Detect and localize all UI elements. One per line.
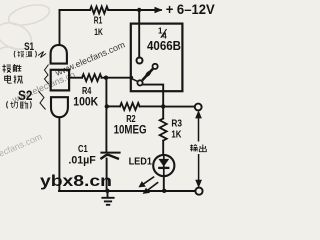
touch pad S2 dome bbox=[51, 97, 68, 117]
svg-text:R1: R1 bbox=[94, 15, 103, 26]
output arrow upper bbox=[196, 112, 201, 142]
svg-text:R4: R4 bbox=[82, 86, 92, 97]
label shu chu (output) bbox=[190, 144, 206, 152]
pointer S1 to pad bbox=[38, 52, 46, 58]
wire top rail right segment bbox=[108, 9, 154, 11]
wire 4066 input column bbox=[138, 10, 140, 57]
switch output pin stub bbox=[132, 79, 138, 82]
IC box 4066 bbox=[131, 24, 183, 92]
svg-text:1K: 1K bbox=[171, 130, 181, 141]
output terminal top bbox=[195, 104, 202, 111]
LED1 emission arrow 1 bbox=[139, 177, 154, 187]
resistor R4 bbox=[82, 74, 102, 81]
watermark swirl logo top-left bbox=[0, 1, 52, 54]
svg-text:100K: 100K bbox=[73, 97, 99, 109]
svg-text:S2: S2 bbox=[18, 87, 33, 103]
touch pad S1 dome bbox=[51, 45, 67, 64]
junction R4 / box edge bbox=[130, 76, 134, 80]
label (jie tong) for S1 bbox=[14, 51, 36, 58]
svg-text:1K: 1K bbox=[94, 27, 103, 37]
svg-text:R2: R2 bbox=[126, 113, 136, 125]
wire bottom rail bbox=[59, 190, 195, 192]
wire LED to bottom rail bbox=[163, 176, 165, 191]
resistor R2 bbox=[120, 103, 140, 110]
wire R2 to junction bbox=[140, 105, 164, 107]
label (qie duan) for S2 bbox=[7, 101, 32, 109]
capacitor C1 bottom plate bbox=[100, 155, 119, 159]
wire R2 rail bbox=[106, 105, 120, 107]
junction top rail / 4066 bbox=[137, 8, 141, 12]
LED1 anode triangle bbox=[158, 159, 169, 167]
wire junction to output terminal bbox=[163, 106, 194, 108]
junction C1 / R2 bbox=[105, 104, 109, 108]
wire R3 to LED bbox=[162, 141, 164, 155]
junction R4 / C1 bbox=[104, 76, 108, 80]
switch lever circle bbox=[153, 64, 158, 69]
svg-text:ybx8.cn: ybx8.cn bbox=[40, 173, 112, 190]
switch input pin circle bbox=[137, 58, 143, 64]
label 1/4 bbox=[158, 27, 167, 41]
junction LED / bottom rail bbox=[162, 189, 166, 193]
wire R4 from square electrode bbox=[70, 77, 83, 79]
wire C1 column lower bbox=[106, 159, 108, 192]
watermark pink text diagonal bbox=[0, 40, 126, 171]
ground bbox=[101, 191, 114, 205]
capacitor C1 top plate bbox=[100, 152, 120, 154]
resistor R3 bbox=[160, 119, 167, 141]
resistor R1 bbox=[90, 7, 108, 14]
LED1 circle bbox=[153, 155, 174, 176]
pointer electrodes brace bbox=[45, 65, 49, 85]
svg-text:LED1: LED1 bbox=[129, 156, 153, 167]
LED1 wire through bbox=[163, 155, 165, 177]
output terminal bottom bbox=[195, 188, 202, 195]
wire R3 column top bbox=[162, 106, 164, 118]
switch output pin circle bbox=[137, 80, 142, 85]
LED1 emission arrow 2 bbox=[144, 182, 159, 193]
output arrow lower bbox=[196, 154, 201, 187]
svg-text:C1: C1 bbox=[78, 143, 88, 155]
arrowhead supply bbox=[154, 9, 162, 11]
svg-text:+ 6–12V: + 6–12V bbox=[166, 1, 216, 17]
pointer S2 to pad bbox=[39, 91, 46, 110]
wire S2 down column bbox=[58, 118, 60, 192]
svg-text:R3: R3 bbox=[171, 118, 182, 129]
wire C1 column upper bbox=[105, 78, 107, 152]
svg-text:.01µF: .01µF bbox=[68, 154, 96, 166]
label dian ji (electrode) bbox=[5, 75, 23, 84]
contact electrode square bbox=[51, 70, 69, 91]
label jie chu (contact) bbox=[2, 64, 21, 72]
wire left column to S1 bbox=[59, 10, 61, 45]
wire top rail left segment bbox=[60, 9, 91, 11]
wire R4 to 4066 box edge bbox=[102, 77, 132, 79]
wire switch output down bbox=[143, 85, 164, 107]
svg-text:4066B: 4066B bbox=[147, 39, 181, 53]
junction C1 / bottom rail bbox=[105, 189, 109, 193]
switch lever arm bbox=[142, 69, 153, 81]
LED1 cathode bar bbox=[158, 167, 169, 169]
svg-text:10MEG: 10MEG bbox=[114, 125, 147, 137]
junction R2 / R3 bbox=[161, 104, 165, 108]
